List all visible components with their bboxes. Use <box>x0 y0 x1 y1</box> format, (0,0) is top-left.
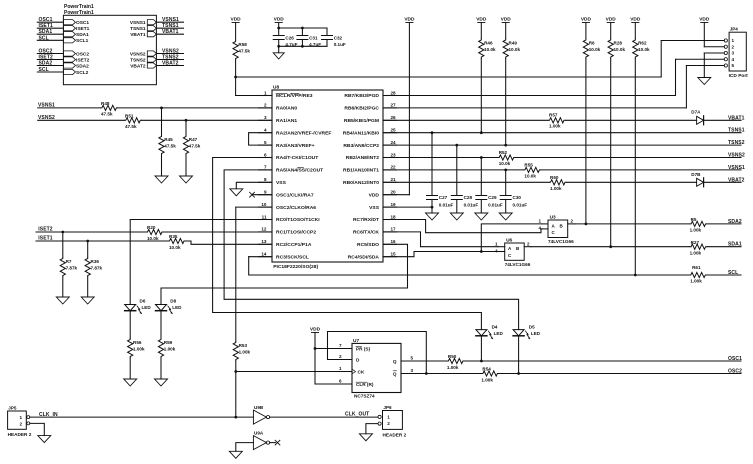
svg-text:7: 7 <box>264 165 267 170</box>
wire caps bottom rail <box>278 40 280 47</box>
wire R47 to ground <box>185 155 187 176</box>
svg-text:27: 27 <box>391 103 397 108</box>
wire pin18 RC7 to U3 pin4 <box>383 220 542 233</box>
svg-text:RC0/T1OSO/T1CKI: RC0/T1OSO/T1CKI <box>276 217 320 223</box>
svg-text:23: 23 <box>391 152 397 157</box>
wire PGD pin28 to ICD <box>383 95 676 97</box>
U8 pin 13 RC2/CCP1/P1A <box>259 243 273 245</box>
svg-text:RA3/AN3/VREF+: RA3/AN3/VREF+ <box>276 143 315 149</box>
svg-text:21: 21 <box>391 177 397 182</box>
resistor R5 <box>690 221 708 226</box>
ground below C27 <box>426 213 439 220</box>
svg-text:RC1/T1OSI/CCP2: RC1/T1OSI/CCP2 <box>276 230 316 236</box>
svg-text:CK: CK <box>358 370 365 375</box>
U8 pin 26 RB5/KBI1/PGM <box>383 119 397 121</box>
buffer U9A <box>253 436 266 450</box>
U8 pin 18 RC7/RX/DT <box>383 219 397 221</box>
U7 pin2 D <box>328 359 353 361</box>
svg-text:10.0k: 10.0k <box>589 47 601 52</box>
resistor R7 <box>62 232 64 257</box>
block port OSC2 <box>63 51 75 56</box>
svg-text:SDA1: SDA1 <box>728 242 742 248</box>
svg-text:7: 7 <box>339 343 342 348</box>
wire VSNS2 <box>38 119 125 121</box>
svg-text:D6: D6 <box>140 298 146 303</box>
wire pin10 OSC2 column <box>236 206 272 208</box>
resistor R36 <box>87 241 89 257</box>
node ISET1/R36 junction <box>86 240 89 243</box>
svg-text:VSNS1: VSNS1 <box>130 20 146 26</box>
wire Q row to OSC1 <box>464 360 741 362</box>
block port ISET1 <box>63 26 75 31</box>
svg-text:R62: R62 <box>638 41 647 46</box>
svg-text:0.01uF: 0.01uF <box>439 202 454 207</box>
svg-text:VDD: VDD <box>501 16 512 22</box>
svg-text:SDA2: SDA2 <box>728 219 742 225</box>
svg-text:RA1/AN1: RA1/AN1 <box>276 118 297 124</box>
svg-text:RB6/KBI2/PGC: RB6/KBI2/PGC <box>344 106 379 112</box>
svg-text:17: 17 <box>391 227 397 232</box>
svg-text:C26: C26 <box>285 35 294 40</box>
svg-text:25: 25 <box>391 128 397 133</box>
wire pin14 SCL wrap-around <box>249 256 272 258</box>
resistor R52 <box>498 155 515 160</box>
wire pin19 VSS to cap ground rail <box>383 206 432 208</box>
IC U8 PIC18F2220 body <box>272 90 383 262</box>
resistor R59 <box>160 311 162 339</box>
svg-text:RB2/AN8/INT2: RB2/AN8/INT2 <box>346 155 379 161</box>
svg-text:JP5: JP5 <box>8 406 17 411</box>
wire JP6 pin2 to ground <box>366 424 378 434</box>
wire R56 to ground <box>129 358 131 379</box>
svg-text:VBAT2: VBAT2 <box>130 63 146 69</box>
svg-text:7.87k: 7.87k <box>66 266 78 271</box>
wire net SDA2 to PowerTrain <box>37 65 63 67</box>
flip-flop U7 NC7SZ74 body <box>352 343 401 392</box>
svg-text:R36: R36 <box>91 259 100 264</box>
svg-text:OSC2: OSC2 <box>76 51 89 57</box>
svg-text:10.0k: 10.0k <box>509 47 521 52</box>
wire R49 to pin24 row <box>505 59 507 146</box>
resistor R50 <box>447 358 464 363</box>
resistor R48 <box>100 105 117 110</box>
U8 pin 23 RB2/AN8/INT2 <box>383 157 397 159</box>
svg-text:47.5k: 47.5k <box>125 124 137 129</box>
power VDD for R6 <box>582 22 589 24</box>
wire pin23 row VSNS2 <box>383 157 498 159</box>
svg-text:0.01uF: 0.01uF <box>464 202 479 207</box>
wire D feedback from Qbar <box>328 332 427 374</box>
svg-text:47.5k: 47.5k <box>238 49 250 54</box>
svg-text:RC6/TX/CK: RC6/TX/CK <box>353 230 379 236</box>
svg-text:R55: R55 <box>524 163 533 168</box>
ground at U9A input <box>229 451 242 458</box>
wire R59 to ground <box>160 358 162 379</box>
svg-text:0.01uF: 0.01uF <box>488 202 503 207</box>
connector JP6 HEADER 2 <box>383 411 403 430</box>
svg-text:VDD: VDD <box>581 16 592 22</box>
U8 pin 5 RA3/AN3/VREF+ <box>259 144 273 146</box>
svg-text:NC7SZ74: NC7SZ74 <box>354 394 375 399</box>
wire JP4 pin4 PGD <box>676 58 725 60</box>
wire R36 to ground <box>87 277 89 297</box>
svg-text:R35: R35 <box>169 234 178 239</box>
wire pin24 row TSNS2 <box>383 144 741 146</box>
svg-text:10.0k: 10.0k <box>147 236 159 241</box>
power VDD for bypass caps <box>275 22 282 24</box>
svg-text:SDA2: SDA2 <box>76 63 89 69</box>
ground at pin8 <box>230 189 243 196</box>
wire net VBAT1 from PowerTrain <box>156 33 183 35</box>
block port VBAT2 <box>147 63 156 68</box>
U8 pin 6 RA4/T-CKI/C1OUT <box>259 157 273 159</box>
svg-text:VDD: VDD <box>476 16 487 22</box>
block port VSNS1 <box>147 20 156 25</box>
U8 pin 21 RB0/AN12/INT0 <box>383 181 397 183</box>
svg-text:R52: R52 <box>499 150 508 155</box>
wire VSNS1 <box>38 107 101 109</box>
svg-text:LED: LED <box>172 305 182 310</box>
svg-text:PR (S): PR (S) <box>356 347 371 352</box>
svg-text:47.5k: 47.5k <box>101 112 113 117</box>
wire JP4 pin3 to ground <box>704 52 724 54</box>
svg-text:OSC1: OSC1 <box>76 20 89 26</box>
wire R46 to pin25 row <box>480 59 482 133</box>
svg-text:4: 4 <box>264 128 267 133</box>
resistor R45 <box>161 108 163 135</box>
capacitor C26 <box>273 35 284 37</box>
svg-text:1.00k: 1.00k <box>550 186 562 191</box>
svg-text:D7A: D7A <box>691 110 701 115</box>
svg-text:0.1uF: 0.1uF <box>334 42 346 47</box>
U8 pin 3 RA1/AN1 <box>259 119 273 121</box>
svg-text:VDD: VDD <box>231 16 242 22</box>
svg-text:PowerTrain1: PowerTrain1 <box>64 10 94 16</box>
resistor R57 <box>548 118 566 123</box>
svg-text:R50: R50 <box>448 354 457 359</box>
svg-text:SCL1: SCL1 <box>76 38 89 44</box>
svg-text:D5: D5 <box>529 324 535 329</box>
svg-text:1.00k: 1.00k <box>690 251 702 256</box>
svg-text:R60: R60 <box>550 175 559 180</box>
svg-text:TSNS1: TSNS1 <box>130 26 146 32</box>
svg-text:U9B: U9B <box>254 405 264 410</box>
resistor R20 <box>146 229 164 234</box>
block port TSNS1 <box>147 26 156 31</box>
wire Qbar row to OSC2 <box>499 373 741 375</box>
U8 pin 7 RA5/AN4/SS/C2OUT <box>259 169 273 171</box>
power VDD for JP4 pin2 <box>701 22 708 24</box>
svg-text:U7: U7 <box>353 338 359 344</box>
wire R53 to clock net <box>235 361 237 417</box>
svg-text:D4: D4 <box>492 324 498 329</box>
svg-text:VDD: VDD <box>274 16 285 22</box>
svg-text:ISET1: ISET1 <box>76 26 90 32</box>
ground below R7 <box>56 297 69 304</box>
resistor R54 <box>481 371 498 376</box>
svg-text:Q: Q <box>393 359 397 364</box>
svg-text:C31: C31 <box>309 35 318 40</box>
svg-text:2: 2 <box>732 44 735 49</box>
JP4 pin 4 <box>724 58 727 61</box>
svg-text:VBAT1: VBAT1 <box>162 29 179 35</box>
svg-text:14: 14 <box>261 252 267 257</box>
resistor R58 <box>235 23 237 41</box>
svg-text:16: 16 <box>391 239 397 244</box>
ground below R45 <box>155 176 168 183</box>
capacitor C28 <box>456 145 458 195</box>
wire net OSC1 to PowerTrain <box>37 21 63 23</box>
U8 pin 16 RC5/SDO <box>383 243 397 245</box>
svg-text:R53: R53 <box>239 343 248 348</box>
svg-text:R27: R27 <box>691 240 700 245</box>
svg-text:VSS: VSS <box>276 180 287 186</box>
svg-text:R56: R56 <box>133 340 142 345</box>
svg-text:C32: C32 <box>334 35 343 40</box>
resistor R49 <box>505 23 507 39</box>
svg-text:SCL: SCL <box>728 270 738 276</box>
wire PGC pin27 to ICD <box>383 107 686 109</box>
U7 pin3 Qbar <box>401 373 481 375</box>
svg-text:10: 10 <box>261 202 267 207</box>
node VSNS1/R45 junction <box>160 107 163 110</box>
ground below R56 <box>124 379 137 386</box>
wire net OSC2 to PowerTrain <box>37 53 63 55</box>
block port SDA1 <box>63 32 75 37</box>
svg-text:C30: C30 <box>513 195 522 200</box>
svg-text:3: 3 <box>732 51 735 56</box>
svg-text:12: 12 <box>261 227 267 232</box>
svg-text:LED: LED <box>142 305 152 310</box>
wire pin22 row VSNS1 <box>383 169 523 171</box>
svg-text:6: 6 <box>264 152 267 157</box>
wire JP4 pin5 PGC <box>686 65 724 67</box>
wire pin11 RC0 to LED D6 <box>130 220 272 305</box>
svg-text:RB3/AN9/CCP2: RB3/AN9/CCP2 <box>343 143 379 149</box>
svg-text:2: 2 <box>571 219 574 224</box>
svg-text:PIC18F2220/SO(28): PIC18F2220/SO(28) <box>273 264 318 270</box>
analog switch U3 74LVC1G66 <box>548 220 568 238</box>
ground below R59 <box>155 379 168 386</box>
LED D8 <box>156 305 167 311</box>
node CLK_IN junction <box>234 416 237 419</box>
svg-text:R7: R7 <box>66 259 72 264</box>
wire R58 to MCLR pin 1 <box>235 60 237 96</box>
wire D4 cathode to OSC1 row <box>480 336 482 361</box>
block port ISET2 <box>63 57 75 62</box>
no-connect X at U9A output <box>270 442 276 444</box>
svg-text:1: 1 <box>495 242 498 247</box>
resistor R28 <box>610 23 612 39</box>
wire net TSNS1 from PowerTrain <box>156 27 183 29</box>
block port VBAT1 <box>147 32 156 37</box>
wire R62 pullup column <box>634 59 636 276</box>
svg-text:C27: C27 <box>439 195 448 200</box>
svg-text:TSNS2: TSNS2 <box>728 140 745 146</box>
diode D7A <box>697 116 704 124</box>
ground at JP4 pin3 <box>698 78 711 85</box>
svg-text:1: 1 <box>732 38 735 43</box>
svg-text:SCL2: SCL2 <box>76 70 89 76</box>
LED D6 <box>125 305 136 311</box>
svg-text:RA2/AN2/VREF-/CVREF: RA2/AN2/VREF-/CVREF <box>276 130 331 136</box>
svg-text:HEADER 2: HEADER 2 <box>383 432 407 437</box>
power VDD for R46 <box>478 22 485 24</box>
svg-text:VBAT2: VBAT2 <box>728 177 745 183</box>
svg-text:RC7/RX/DT: RC7/RX/DT <box>353 217 379 223</box>
wire R45 to ground <box>161 155 163 176</box>
wire net SCL to PowerTrain <box>37 71 63 73</box>
svg-text:28: 28 <box>391 90 397 95</box>
svg-text:10.0k: 10.0k <box>638 47 650 52</box>
U8 pin 1 MCLR/VPP/RE3 <box>259 95 273 97</box>
U8 pin 19 VSS <box>383 206 397 208</box>
resistor R60 <box>549 180 567 185</box>
svg-text:RC2/CCP1/P1A: RC2/CCP1/P1A <box>276 242 312 248</box>
capacitor C32 <box>322 35 333 37</box>
svg-text:R58: R58 <box>238 42 247 47</box>
svg-text:6: 6 <box>339 379 342 384</box>
svg-text:TSNS2: TSNS2 <box>130 57 146 63</box>
svg-text:19: 19 <box>391 202 397 207</box>
capacitor C31 <box>297 35 308 37</box>
svg-text:R51: R51 <box>125 114 134 119</box>
svg-text:R5: R5 <box>691 217 697 222</box>
U6 pin stubs <box>498 246 505 248</box>
svg-text:R46: R46 <box>484 41 493 46</box>
svg-text:R45: R45 <box>164 137 173 142</box>
svg-text:1.00k: 1.00k <box>481 377 493 382</box>
wire U6 pin2 SDA1 row <box>531 246 690 248</box>
analog switch U6 74LVC1G66 <box>505 243 525 260</box>
U8 pin 24 RB3/AN9/CCP2 <box>383 144 397 146</box>
svg-text:R47: R47 <box>189 137 198 142</box>
svg-text:3: 3 <box>264 115 267 120</box>
ground below C29 <box>475 213 488 220</box>
wire MCLR to JP4 pin1 <box>661 40 724 42</box>
U8 pin 9 OSC1/CLKI/RA7 <box>259 194 273 196</box>
svg-text:RA0/AN0: RA0/AN0 <box>276 106 297 112</box>
svg-text:74LVC1G66: 74LVC1G66 <box>505 262 531 267</box>
wire net VSNS1 from PowerTrain <box>156 21 183 23</box>
svg-text:VSNS1: VSNS1 <box>728 165 745 171</box>
svg-text:RB4/AN11/KBI0: RB4/AN11/KBI0 <box>343 130 379 136</box>
wire ISET2 <box>36 231 146 233</box>
svg-text:R49: R49 <box>509 41 518 46</box>
power VDD for R58 <box>232 22 239 24</box>
svg-text:15: 15 <box>391 252 397 257</box>
U8 pin 8 VSS <box>259 181 273 183</box>
svg-text:1: 1 <box>264 90 267 95</box>
svg-text:R6: R6 <box>589 41 595 46</box>
wire pin6 RA4 to LED D4 <box>213 158 482 330</box>
svg-text:U8: U8 <box>273 85 279 91</box>
svg-text:74LVC1G66: 74LVC1G66 <box>548 239 574 244</box>
svg-text:1: 1 <box>339 366 342 371</box>
resistor R6 <box>585 23 587 39</box>
svg-text:22: 22 <box>391 165 397 170</box>
svg-text:ISET2: ISET2 <box>76 57 90 63</box>
svg-text:26: 26 <box>391 115 397 120</box>
U8 pin 20 VDD <box>383 194 397 196</box>
U7 pin1 CK <box>236 371 352 373</box>
svg-text:10.0k: 10.0k <box>169 245 181 250</box>
svg-text:R61: R61 <box>692 265 701 270</box>
U7 pin6 CLR <box>315 383 352 385</box>
svg-text:SDA1: SDA1 <box>39 29 53 35</box>
wire JP5 pin2 to ground <box>30 423 45 435</box>
buffer U9B <box>253 410 266 424</box>
svg-text:2: 2 <box>19 421 22 426</box>
svg-text:2: 2 <box>387 421 390 426</box>
svg-text:7.87k: 7.87k <box>91 266 103 271</box>
block port SCL2 <box>63 69 75 74</box>
wire net VBAT2 from PowerTrain <box>156 65 183 67</box>
wire pins 4-5 VREF loop <box>249 133 272 145</box>
svg-text:RB5/KBI1/PGM: RB5/KBI1/PGM <box>344 118 379 124</box>
wire pin25 row TSNS1 <box>383 132 741 134</box>
U8 pin 14 RC3/SCK/SCL <box>259 256 273 258</box>
ground below C26 <box>273 53 284 59</box>
wire net ISET2 to PowerTrain <box>37 59 63 61</box>
svg-text:VBAT1: VBAT1 <box>130 32 146 38</box>
U8 pin 11 RC0/T1OSO/T1CKI <box>259 219 273 221</box>
wire CLK_IN <box>30 416 254 418</box>
U8 pin 10 OSC2/CLKO/RA6 <box>259 206 273 208</box>
U7 power VDD <box>311 332 318 334</box>
svg-text:2: 2 <box>339 354 342 359</box>
svg-text:LED: LED <box>494 331 504 336</box>
svg-text:R28: R28 <box>614 41 623 46</box>
svg-text:VSNS2: VSNS2 <box>130 51 146 57</box>
svg-text:10.0k: 10.0k <box>614 47 626 52</box>
wire pin8 VSS to ground <box>236 182 272 189</box>
svg-text:47.5k: 47.5k <box>164 144 176 149</box>
power VDD to pin 20 <box>406 22 413 24</box>
svg-text:1.00k: 1.00k <box>549 124 561 129</box>
ground below C28 <box>450 213 463 220</box>
U7 pin5 Q <box>401 360 447 362</box>
capacitor C30 <box>505 170 507 196</box>
svg-text:3: 3 <box>411 368 414 373</box>
U8 pin 4 RA2/AN2/VREF-/CVREF <box>259 132 273 134</box>
svg-text:VDD: VDD <box>630 16 641 22</box>
svg-text:47.5k: 47.5k <box>189 144 201 149</box>
U8 pin 17 RC6/TX/CK <box>383 231 397 233</box>
wire pin21 row VBAT2 <box>383 181 549 183</box>
wire pin17 RC6 to U6 pin1 <box>383 232 498 247</box>
svg-text:1.00k: 1.00k <box>164 347 176 352</box>
svg-text:VDD: VDD <box>404 16 415 22</box>
wire pin26 row VBAT1 <box>383 119 548 121</box>
svg-text:2: 2 <box>527 242 530 247</box>
block port SCL1 <box>63 38 75 43</box>
svg-text:C29: C29 <box>488 195 497 200</box>
svg-text:CLR (R): CLR (R) <box>356 382 374 387</box>
JP4 pin 5 <box>724 64 727 67</box>
power VDD for R62 <box>632 22 639 24</box>
wire R6 pullup column <box>585 59 587 224</box>
svg-text:SDA2: SDA2 <box>39 61 53 67</box>
block port OSC1 <box>63 20 75 25</box>
block port VSNS2 <box>147 51 156 56</box>
U8 pin 12 RC1/T1OSI/CCP2 <box>259 231 273 233</box>
svg-text:OSC1: OSC1 <box>728 356 742 362</box>
JP4 pin 1 <box>724 39 727 42</box>
power VDD for R49 <box>502 22 509 24</box>
svg-text:Q: Q <box>393 372 397 377</box>
resistor R47 <box>185 120 187 135</box>
